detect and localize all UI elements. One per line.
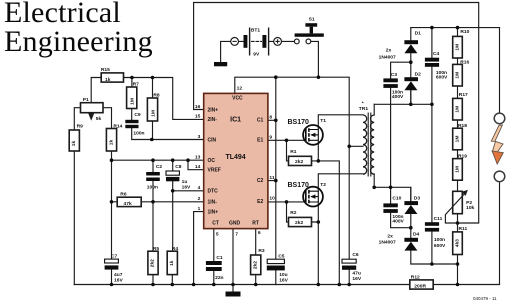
- resistor R11: [453, 232, 463, 255]
- svg-text:2k2: 2k2: [295, 159, 303, 165]
- wire top HV bus: [411, 28, 500, 114]
- svg-text:1IN+: 1IN+: [208, 209, 219, 215]
- wire T1 source: [318, 140, 339, 284]
- diode D1: [404, 40, 418, 53]
- output terminal upper: [494, 113, 505, 124]
- svg-text:100n: 100n: [147, 184, 158, 190]
- svg-text:11: 11: [269, 175, 274, 181]
- svg-text:BS170: BS170: [288, 182, 310, 189]
- capacitor C7 electrolytic: [105, 259, 119, 270]
- svg-text:400V: 400V: [392, 219, 404, 225]
- svg-text:E2: E2: [257, 199, 263, 205]
- svg-text:1IN-: 1IN-: [208, 199, 218, 205]
- potentiometer P2 wiper arrow: [445, 190, 468, 223]
- svg-text:1M: 1M: [455, 44, 461, 51]
- svg-text:C1: C1: [216, 255, 223, 261]
- wire VCC bus: [235, 77, 363, 284]
- svg-text:R6: R6: [120, 191, 127, 197]
- svg-text:2x: 2x: [387, 234, 393, 240]
- wire R6 to pin2: [112, 201, 204, 203]
- capacitor C6 electrolytic: [342, 259, 356, 270]
- wire battery dashes: [252, 40, 262, 42]
- wire diode column: [411, 28, 458, 264]
- capacitor C5 electrolytic: [267, 259, 285, 270]
- wire E1 gate T1: [268, 139, 306, 141]
- svg-text:R10: R10: [460, 29, 469, 35]
- wire collector/C5 column: [268, 77, 276, 284]
- potentiometer P1 body: [81, 103, 104, 113]
- svg-text:S1: S1: [309, 17, 315, 23]
- resistor R1: [289, 156, 312, 165]
- svg-text:100n: 100n: [133, 130, 144, 136]
- wire battery left: [221, 41, 231, 62]
- svg-text:4: 4: [198, 185, 201, 191]
- wire R1 taps: [287, 140, 319, 161]
- transformer TR1 primary winding: [363, 115, 367, 174]
- switch S1: [294, 23, 323, 44]
- svg-text:1M: 1M: [150, 110, 156, 117]
- svg-text:R11: R11: [459, 226, 468, 232]
- resistor R7: [127, 87, 137, 109]
- wire GND pin: [232, 229, 234, 292]
- svg-text:16V: 16V: [352, 276, 361, 282]
- svg-text:1N4007: 1N4007: [379, 239, 396, 245]
- svg-text:1k: 1k: [105, 77, 111, 83]
- capacitor C8 electrolytic: [166, 171, 179, 181]
- svg-text:R7: R7: [133, 82, 140, 88]
- wire C3 C10 column: [391, 62, 411, 228]
- svg-text:VCC: VCC: [232, 96, 243, 102]
- svg-text:CT: CT: [212, 221, 219, 227]
- svg-text:VREF: VREF: [208, 168, 221, 174]
- resistor R16: [453, 64, 463, 86]
- svg-text:10: 10: [269, 196, 275, 202]
- wire pin1 ground: [194, 212, 204, 285]
- svg-text:DTC: DTC: [208, 189, 219, 195]
- wire E2 gate T2: [268, 201, 306, 203]
- transistor T2 BS170: [303, 187, 323, 207]
- svg-text:13: 13: [195, 155, 201, 161]
- svg-text:R17: R17: [459, 92, 468, 98]
- svg-text:1M: 1M: [455, 136, 461, 143]
- svg-text:2IN-: 2IN-: [208, 117, 218, 123]
- svg-text:R8: R8: [153, 92, 160, 98]
- svg-text:R4: R4: [172, 246, 179, 252]
- svg-text:C7: C7: [111, 253, 118, 259]
- svg-text:C9: C9: [134, 112, 141, 118]
- svg-text:D2: D2: [415, 72, 422, 78]
- svg-text:16V: 16V: [279, 277, 288, 283]
- svg-text:R5: R5: [153, 246, 160, 252]
- svg-text:R12: R12: [411, 274, 420, 280]
- svg-text:C8: C8: [175, 164, 182, 170]
- wire DTC stub: [173, 190, 204, 192]
- svg-text:2k2: 2k2: [150, 259, 156, 267]
- wire secondary stubs: [373, 104, 375, 187]
- wire battery right to S1: [238, 41, 318, 77]
- svg-text:400V: 400V: [392, 94, 404, 100]
- wire T2 drain: [318, 174, 363, 191]
- svg-text:RT: RT: [252, 221, 259, 227]
- svg-text:200R: 200R: [414, 283, 426, 289]
- svg-text:R19: R19: [458, 154, 467, 160]
- transistor T1 BS170: [303, 125, 323, 145]
- svg-text:4k3: 4k3: [455, 239, 461, 247]
- transformer TR1 core: [368, 113, 371, 177]
- diode D2: [404, 77, 418, 90]
- svg-text:2x: 2x: [386, 48, 392, 54]
- svg-text:16V: 16V: [182, 185, 191, 191]
- svg-text:12: 12: [237, 86, 243, 92]
- svg-text:R3: R3: [258, 248, 265, 254]
- svg-text:IC1: IC1: [230, 117, 241, 124]
- svg-text:BS170: BS170: [288, 119, 310, 126]
- svg-text:R2: R2: [290, 210, 297, 216]
- svg-text:R14: R14: [113, 123, 122, 129]
- wire C2 column: [152, 160, 154, 284]
- wire VREF/OC line: [112, 160, 204, 170]
- svg-text:1M: 1M: [130, 98, 136, 105]
- svg-text:C10: C10: [392, 195, 401, 201]
- svg-text:7: 7: [235, 232, 238, 238]
- svg-text:47u: 47u: [352, 271, 360, 277]
- svg-text:C1: C1: [257, 118, 264, 124]
- resistor R2: [289, 217, 312, 226]
- svg-text:040479 - 11: 040479 - 11: [473, 296, 497, 300]
- output terminal lower: [494, 171, 505, 182]
- svg-text:D3: D3: [414, 195, 421, 201]
- svg-text:1: 1: [198, 206, 201, 212]
- svg-text:1N4007: 1N4007: [379, 55, 396, 61]
- svg-text:1u: 1u: [182, 179, 188, 185]
- wire R14 column: [111, 151, 113, 285]
- svg-text:600V: 600V: [434, 243, 446, 249]
- svg-text:D4: D4: [413, 232, 420, 238]
- svg-text:C4: C4: [433, 51, 440, 57]
- svg-text:OC: OC: [208, 158, 216, 164]
- svg-text:100n: 100n: [434, 237, 445, 243]
- svg-text:600V: 600V: [436, 75, 448, 81]
- resistor R19: [453, 159, 463, 181]
- resistor R10: [453, 36, 463, 58]
- svg-text:R15: R15: [101, 67, 110, 73]
- svg-text:R16: R16: [460, 59, 469, 65]
- resistor R14: [106, 129, 116, 152]
- resistor R8: [147, 98, 157, 121]
- capacitor C4: [425, 58, 439, 67]
- svg-text:C11: C11: [434, 216, 443, 222]
- diode D4: [404, 238, 418, 251]
- svg-text:15: 15: [195, 114, 201, 120]
- capacitor C11: [425, 222, 439, 231]
- svg-text:9V: 9V: [253, 51, 260, 57]
- wire T2 source: [317, 202, 319, 285]
- wire P1 arms: [74, 108, 111, 130]
- capacitor C2: [146, 172, 160, 181]
- wire C4 C11 column: [431, 28, 433, 264]
- svg-text:R18: R18: [458, 123, 467, 129]
- wire sec bottom net: [374, 187, 411, 201]
- svg-text:C2: C2: [257, 178, 264, 184]
- svg-text:8: 8: [269, 115, 272, 121]
- svg-text:5k: 5k: [96, 116, 102, 122]
- svg-text:C3: C3: [391, 72, 398, 78]
- battery BT1: [231, 28, 282, 56]
- wire feedback top line: [194, 3, 479, 224]
- svg-text:6: 6: [258, 230, 261, 236]
- wire R2 taps: [287, 202, 319, 222]
- svg-text:R9: R9: [77, 124, 84, 130]
- potentiometer P1 wiper arrow: [88, 113, 94, 121]
- svg-text:10k: 10k: [466, 205, 474, 211]
- capacitor C3: [383, 78, 397, 88]
- svg-text:C5: C5: [278, 253, 285, 259]
- svg-text:R1: R1: [290, 149, 297, 155]
- svg-text:C2: C2: [156, 164, 163, 170]
- svg-text:1M: 1M: [455, 72, 461, 79]
- wire R15 net: [91, 78, 204, 120]
- potentiometer P2 body: [453, 191, 463, 213]
- svg-text:47k: 47k: [124, 201, 132, 207]
- svg-text:1k: 1k: [108, 140, 114, 146]
- wire R9 bottom: [73, 151, 75, 285]
- wire C9 pin3: [132, 109, 204, 140]
- svg-text:3: 3: [198, 134, 201, 140]
- svg-text:16V: 16V: [114, 277, 123, 283]
- svg-text:C6: C6: [352, 252, 359, 258]
- wire CT C1: [213, 229, 215, 285]
- svg-text:2k2: 2k2: [295, 220, 303, 226]
- node junction dots: [110, 26, 460, 287]
- wire RT R3: [255, 229, 257, 285]
- diode D3: [404, 201, 418, 214]
- wire C8/R4 column: [171, 160, 173, 284]
- IC pin numbers and labels: [195, 86, 275, 238]
- svg-text:16: 16: [195, 104, 201, 110]
- ground (battery): [214, 62, 227, 66]
- svg-text:*: *: [362, 101, 364, 107]
- resistor R12: [410, 280, 433, 289]
- svg-text:1M: 1M: [455, 166, 461, 173]
- svg-text:T2: T2: [320, 182, 326, 188]
- resistor R6: [117, 197, 141, 206]
- svg-text:1M: 1M: [455, 106, 461, 113]
- resistor R18: [453, 128, 463, 150]
- resistor R15: [101, 73, 123, 82]
- capacitor C10: [383, 203, 397, 213]
- wire sec top net: [374, 90, 432, 104]
- ground (IC GND): [226, 292, 241, 297]
- svg-text:14: 14: [195, 164, 201, 170]
- svg-text:10u: 10u: [279, 272, 287, 278]
- transformer TR1 secondary winding: [371, 115, 375, 174]
- svg-text:P1: P1: [83, 97, 89, 103]
- resistor R5: [148, 251, 158, 274]
- lightning bolt: [491, 125, 503, 164]
- resistor R9: [69, 130, 79, 151]
- svg-text:TR1: TR1: [359, 106, 369, 112]
- title: [4, 0, 153, 56]
- svg-text:5: 5: [216, 232, 219, 238]
- wire T1 drain: [318, 115, 363, 130]
- resistor R3: [251, 255, 261, 275]
- svg-text:2: 2: [198, 196, 201, 202]
- svg-text:4u7: 4u7: [114, 272, 123, 278]
- svg-text:TL494: TL494: [225, 154, 245, 161]
- resistor R4: [167, 251, 177, 274]
- svg-text:T1: T1: [320, 118, 326, 124]
- svg-text:D1: D1: [415, 30, 422, 36]
- wire R10 chain: [457, 28, 459, 285]
- svg-text:9: 9: [269, 135, 272, 141]
- svg-text:1k: 1k: [71, 141, 77, 147]
- op IC1 TL494 body: [204, 93, 268, 228]
- resistor R17: [453, 98, 463, 120]
- svg-text:BT1: BT1: [251, 28, 261, 34]
- svg-text:2IN+: 2IN+: [208, 107, 219, 113]
- svg-text:22n: 22n: [215, 275, 223, 281]
- wire bottom bus: [74, 182, 499, 285]
- svg-text:1k: 1k: [169, 260, 175, 266]
- capacitor C1: [206, 261, 222, 271]
- svg-text:E1: E1: [257, 138, 263, 144]
- svg-text:CIN: CIN: [208, 137, 217, 143]
- svg-text:2k2: 2k2: [252, 261, 258, 269]
- capacitor C9: [125, 120, 138, 128]
- svg-text:GND: GND: [229, 221, 241, 227]
